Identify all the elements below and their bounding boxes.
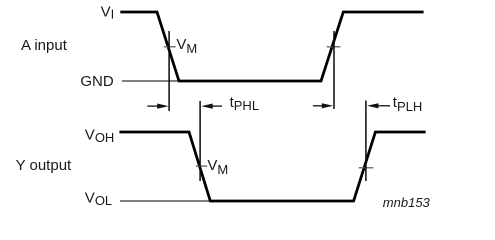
svg-text:VI: VI bbox=[101, 3, 115, 21]
svg-text:mnb153: mnb153 bbox=[383, 195, 431, 210]
arrow into t_PHL start (points right at first crossing) bbox=[147, 104, 168, 109]
svg-text:A input: A input bbox=[21, 37, 68, 54]
V_M tick on A falling edge bbox=[164, 46, 176, 48]
svg-text:VOL: VOL bbox=[85, 189, 112, 208]
timing line at A falling V_M crossing bbox=[168, 31, 170, 111]
svg-text:GND: GND bbox=[80, 73, 114, 90]
arrow at t_PLH end (points left at Y rising crossing) bbox=[367, 103, 390, 108]
arrow at t_PHL end (points left at Y falling crossing) bbox=[201, 104, 222, 109]
A input waveform bbox=[120, 12, 423, 81]
svg-text:Y output: Y output bbox=[16, 157, 72, 174]
V_M tick on Y falling edge bbox=[196, 165, 208, 167]
V_M tick on A rising edge bbox=[327, 46, 341, 48]
GND reference line (thin) bbox=[122, 80, 181, 82]
timing line at Y rising V_M crossing bbox=[365, 101, 367, 182]
svg-text:VOH: VOH bbox=[85, 126, 115, 145]
timing line at Y falling V_M crossing bbox=[199, 101, 201, 181]
V_OL reference line (thin) bbox=[120, 200, 211, 202]
arrow into t_PLH start (points right at A rising crossing) bbox=[313, 103, 333, 108]
Y output waveform bbox=[119, 132, 425, 201]
timing line at A rising V_M crossing bbox=[333, 31, 335, 109]
V_M tick on Y rising edge bbox=[359, 167, 374, 169]
